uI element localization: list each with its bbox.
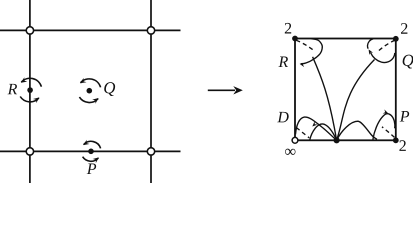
label Q (right figure) — [403, 55, 413, 69]
rotation arrow arcs around Q — [79, 78, 100, 104]
node: rotation centre R (dot) — [27, 87, 33, 93]
node: lattice point top-right (open circle) — [147, 27, 154, 34]
loop Q: solid cap part — [367, 39, 373, 49]
wire: left lattice vertical line 1 — [29, 0, 31, 183]
wire: path from basepoint to corner P (big right arc) — [337, 121, 377, 140]
square boundary of orbifold — [295, 39, 396, 141]
node: cone point top-right corner (order 2) — [393, 36, 399, 42]
label P (right figure) — [400, 111, 409, 121]
loop D: dashed back part — [296, 128, 309, 138]
loop R: dashed back part — [296, 40, 314, 51]
node: cone point top-left corner (order 2) — [292, 36, 298, 42]
loop D: solid medium arc — [310, 124, 337, 140]
label 2 at bottom-right corner — [399, 140, 405, 151]
label infinity at bottom-left corner — [285, 149, 295, 155]
loop Q: dashed back part — [378, 40, 395, 51]
loop D: arrowhead — [312, 121, 317, 126]
loop Q: arrowhead — [369, 49, 374, 55]
loop R: solid front part — [301, 39, 323, 64]
node: rotation centre P (dot) — [88, 149, 94, 155]
node: cone point bottom-right corner (order 2) — [393, 137, 399, 143]
node: basepoint on bottom edge — [334, 137, 340, 143]
wire: path from basepoint to corner R (long left curve) — [313, 57, 337, 141]
loop R: arrowhead — [300, 63, 306, 67]
label 2 at top-right corner — [401, 23, 407, 34]
node: lattice point bottom-left (open circle) — [26, 148, 33, 155]
node: lattice point top-left (open circle) — [26, 27, 33, 34]
label D (right figure) — [277, 112, 288, 123]
loop P: solid front part — [373, 114, 395, 140]
label Q (left figure) — [104, 82, 115, 96]
wire: path from basepoint to puncture corner (big left arc) — [296, 117, 337, 140]
rotation arrow arcs around P — [83, 140, 101, 163]
label R (left figure) — [8, 84, 18, 94]
label R (right figure) — [278, 57, 288, 67]
node: puncture bottom-left corner (infinity, open circle) — [292, 137, 298, 143]
label 2 at top-left corner — [285, 23, 291, 34]
wire: path from basepoint to corner Q (long right curve) — [337, 60, 375, 141]
label P (left figure) — [87, 164, 96, 174]
wire: left lattice horizontal line 2 — [0, 150, 181, 152]
rotation arrow arcs around R — [20, 77, 41, 103]
arrow: quotient map between figures — [208, 86, 243, 94]
node: lattice point bottom-right (open circle) — [147, 148, 154, 155]
node: rotation centre Q (dot) — [87, 88, 93, 94]
wire: left lattice vertical line 2 — [150, 0, 152, 183]
loop P: arrowhead — [383, 109, 389, 113]
loop P: dashed back part — [382, 127, 395, 138]
wire: left lattice horizontal line 1 — [0, 29, 181, 31]
loop Q: solid lower sweep — [371, 53, 395, 63]
